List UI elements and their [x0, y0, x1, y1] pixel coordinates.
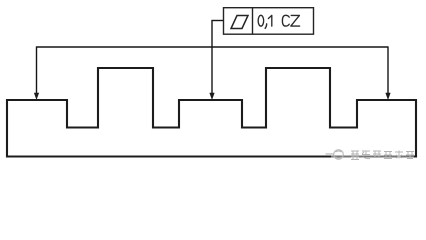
- arrow left: [34, 93, 39, 100]
- glyph 1: [268, 15, 271, 26]
- frame divider: [252, 8, 254, 35]
- glyph 0: [258, 15, 264, 26]
- watermark backdrop (dims part line): [331, 150, 414, 161]
- tolerance text 0,1 CZ: [258, 15, 299, 28]
- glyph Z: [291, 15, 300, 26]
- wire: right leader vertical: [387, 46, 389, 93]
- watermark text (stylized CJK squiggles): [351, 151, 414, 160]
- glyph C: [282, 15, 289, 26]
- wire: middle leader vertical: [211, 21, 213, 94]
- wire: stub from frame to middle leader: [211, 20, 223, 22]
- glyph comma: [265, 24, 267, 29]
- part outline (stepped workpiece cross-section): [7, 68, 416, 157]
- flatness symbol (parallelogram): [231, 16, 248, 29]
- feature control frame: [224, 8, 314, 35]
- wire: left leader vertical: [36, 46, 38, 93]
- arrow middle: [209, 93, 214, 100]
- arrow right: [385, 93, 390, 100]
- watermark logo: [334, 150, 344, 160]
- watermark dash: [326, 153, 334, 155]
- wire: horizontal leader line: [37, 46, 389, 48]
